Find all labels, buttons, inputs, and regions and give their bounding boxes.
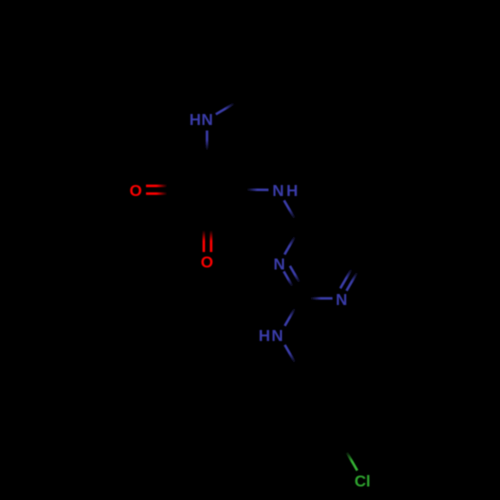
bond anilino N-H to phenyl C1 [285, 345, 300, 371]
svg-text:N: N [273, 256, 285, 273]
carbonyl C=O (bottom) line 2 [210, 220, 213, 252]
svg-text:H: H [189, 112, 201, 129]
svg-text:N: N [336, 292, 348, 309]
bond pyrimidine N1 to C2 [300, 297, 333, 300]
svg-text:Cl: Cl [355, 473, 371, 490]
double bond N1=C6 inner line [340, 265, 353, 288]
bond Cl to phenyl C4 [342, 443, 358, 470]
bond amide N-H to ring C_b [237, 188, 269, 191]
carbonyl C=O (left) line 2 [146, 192, 177, 195]
double bond N3=C2 outer line [284, 271, 300, 299]
bond N(methylamino) to CH3 [216, 98, 243, 114]
svg-text:O: O [129, 183, 141, 200]
svg-text:N: N [201, 112, 213, 129]
bond amide N-H to pyrimidine C4 [284, 200, 300, 227]
svg-text:O: O [201, 255, 213, 272]
svg-text:H: H [259, 328, 271, 345]
double bond N1=C6 outer line [347, 264, 363, 291]
bond N(methylamino) to ring C_a [206, 131, 209, 161]
carbonyl C=O (bottom) line 1 [203, 220, 206, 252]
svg-text:N: N [272, 328, 284, 345]
bond anilino N-H to pyrimidine C2 [285, 300, 300, 326]
double bond N3=C2 inner line [290, 266, 303, 289]
svg-text:N: N [272, 183, 284, 200]
carbonyl C=O (left) line 1 [146, 185, 177, 188]
svg-text:H: H [286, 183, 298, 200]
bond pyrimidine N3 to C4 [285, 228, 301, 255]
